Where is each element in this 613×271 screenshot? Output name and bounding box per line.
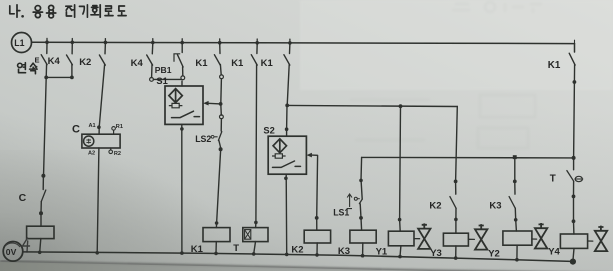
S1 bottom wire to 0V bus [181,124,183,253]
svg-text:C: C [72,123,80,135]
solenoid coil Y4 [560,234,587,248]
relay coil K4 (bottom left) [27,226,54,238]
svg-text:K3: K3 [489,200,501,211]
S2 output arrow wire to coil K2 [307,153,312,158]
supply terminal L1 [12,33,32,53]
svg-text:Y2: Y2 [488,249,500,260]
bottom 0V bus wire [24,252,572,262]
S1 output arrow to K1 column [203,101,208,106]
svg-text:K1: K1 [191,244,204,255]
svg-text:T: T [233,243,239,254]
solenoid coil Y3 [443,233,468,246]
contact K4 (column 1, latching) [46,43,48,54]
contact K1 (column 7, sensor S2 branch) [289,43,291,53]
wire counter to bottom bus [97,148,99,253]
svg-text:T: T [550,173,556,184]
svg-text:K1: K1 [231,58,244,69]
relay coil K3 [350,230,376,243]
S2 output stage symbol [272,154,286,158]
contact K1 (top right) [574,44,576,52]
S1 switch symbol [172,111,200,117]
svg-text:K1: K1 [548,60,561,71]
svg-text:K1: K1 [261,58,274,69]
relay coil K2 [304,230,330,243]
contact K3 (right) from H2 [514,158,516,182]
svg-text:A2: A2 [88,151,95,157]
svg-text:0V: 0V [6,247,17,257]
node H1 junction [285,104,289,108]
svg-text:Y1: Y1 [376,246,388,257]
wire column1 down to C contact [44,77,47,176]
bus junction [255,41,259,45]
svg-text:S2: S2 [263,125,274,135]
solenoid coil Y1 [388,231,414,246]
bus junction [104,41,108,45]
bus junction [180,41,184,45]
relay coil K1 [203,228,230,242]
svg-text:C: C [19,192,27,204]
svg-text:L1: L1 [14,38,24,48]
top supply bus wire [32,42,575,43]
svg-text:A1: A1 [89,123,96,129]
bus junction [218,41,222,45]
valve symbol Y1 [414,238,420,240]
S1 output stage symbol [169,103,183,107]
contact K1 (column 6, timer branch) [256,43,258,53]
svg-text:S1: S1 [156,76,167,86]
svg-text:E: E [35,56,40,65]
wire V2 from H1 to valve coil Y1 [399,106,402,219]
handwritten 4 mark [23,238,30,252]
bus junction [45,40,49,44]
page-bottom shadow edge [0,261,613,271]
svg-text:K2: K2 [291,244,303,255]
S2 proximity symbol diamond [273,139,286,153]
wire column3 to counter [99,65,104,128]
svg-text:R2: R2 [114,151,121,157]
svg-text:K3: K3 [338,246,350,257]
svg-text:K2: K2 [79,57,91,68]
svg-text:PB1: PB1 [155,65,172,75]
S2 bottom wire to 0V bus [285,174,288,254]
bus junction [71,41,75,45]
valve symbol Y4 [588,240,593,242]
svg-text:LS2: LS2 [195,134,211,144]
title text 나. 응용 전기회로도 [10,5,126,18]
solenoid coil Y2 [503,231,532,245]
contact K1 (column 5) [219,43,221,53]
bus end circle [570,259,576,265]
valve symbol Y3 [468,238,474,240]
limit switch LS1 branch [360,157,363,180]
limit switch LS2 [220,104,223,115]
label 연속 (continuous) with E mark [18,63,26,73]
wire down to S2 [286,105,288,129]
contact K4 manual column (PB1 branch left) [151,43,154,54]
faint bleed-through shapes [350,2,542,148]
S1 proximity symbol diamond [169,89,182,103]
svg-text:K2: K2 [429,200,441,211]
contact K2 (column 3) [104,43,106,54]
parallel rail joining K4 contacts [46,76,72,78]
contact K4 column 2 [71,43,73,54]
svg-text:R1: R1 [116,124,123,130]
svg-text:K4: K4 [48,56,61,67]
node H2 horizontal rail [362,156,574,159]
timer coil T [243,228,268,242]
svg-text:K4: K4 [131,58,144,69]
svg-text:K1: K1 [195,58,208,69]
S2 switch symbol [273,161,301,167]
wire V1 from H1 corner to contact K2 [456,107,458,182]
sensor S1 box [181,81,183,86]
terminal 0V [3,242,23,262]
rail K4/PB1 parallel with S1 label [150,78,154,82]
svg-text:Y4: Y4 [548,246,560,257]
wire LS2 to coil K1 [217,151,221,223]
svg-text:Y3: Y3 [430,248,442,259]
bus junction [288,41,292,45]
bus junction [151,41,155,45]
wire H1 horizontal distribution [287,105,457,106]
valve symbol Y2 [532,238,537,240]
